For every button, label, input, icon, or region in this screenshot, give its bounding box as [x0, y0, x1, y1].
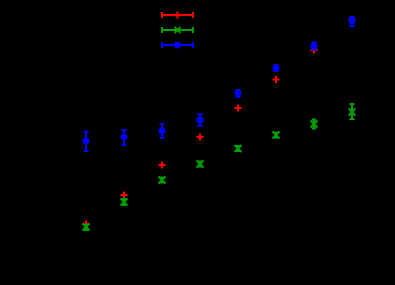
blue point 8: [349, 17, 356, 26]
legend green sample: [162, 27, 193, 33]
green point 8: [349, 104, 356, 119]
legend red sample: [162, 12, 193, 19]
red point 8: [349, 16, 356, 23]
red point 2: [121, 192, 128, 199]
blue point 1: [83, 132, 90, 152]
green point 5: [235, 145, 242, 152]
red point 4: [197, 134, 204, 141]
blue point 2: [121, 130, 128, 145]
blue point 4: [197, 114, 204, 126]
red point 7: [311, 47, 318, 54]
red point 3: [159, 162, 166, 169]
green point 4: [197, 161, 204, 168]
green point 3: [159, 177, 166, 184]
blue point 7: [311, 43, 318, 50]
blue point 3: [159, 124, 166, 138]
green point 1: [83, 224, 90, 231]
green point 2: [121, 199, 128, 206]
red point 5: [235, 105, 242, 112]
legend blue sample: [162, 42, 193, 49]
blue point 6: [273, 65, 280, 72]
blue point 5: [235, 90, 242, 98]
green point 6: [273, 132, 280, 139]
red point 1: [83, 221, 90, 228]
green point 7: [311, 120, 318, 129]
red point 6: [273, 76, 280, 83]
